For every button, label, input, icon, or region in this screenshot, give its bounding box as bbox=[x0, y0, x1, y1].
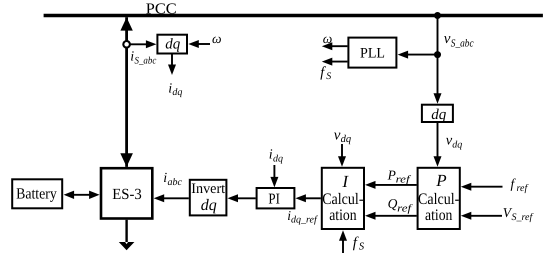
svg-text:ω: ω bbox=[323, 31, 333, 46]
svg-text:ation: ation bbox=[425, 207, 452, 224]
svg-text:abc: abc bbox=[168, 177, 183, 188]
svg-text:v: v bbox=[444, 31, 451, 47]
svg-text:ref: ref bbox=[517, 183, 529, 194]
svg-text:S_abc: S_abc bbox=[451, 37, 474, 49]
svg-text:S_ref: S_ref bbox=[512, 212, 534, 223]
svg-text:dq: dq bbox=[341, 134, 352, 145]
svg-text:ω: ω bbox=[212, 31, 222, 46]
svg-text:P: P bbox=[387, 167, 396, 182]
svg-text:Q: Q bbox=[388, 196, 398, 211]
svg-text:S: S bbox=[359, 241, 365, 252]
svg-text:dq: dq bbox=[201, 197, 217, 214]
svg-text:dq: dq bbox=[452, 139, 462, 150]
svg-text:PCC: PCC bbox=[146, 0, 177, 17]
svg-text:P: P bbox=[435, 171, 446, 190]
svg-text:dq: dq bbox=[431, 107, 447, 123]
svg-text:Calcul-: Calcul- bbox=[418, 191, 459, 208]
svg-text:dq: dq bbox=[172, 87, 182, 98]
svg-text:ES-3: ES-3 bbox=[112, 186, 142, 203]
svg-text:Battery: Battery bbox=[16, 186, 57, 203]
svg-text:Invert: Invert bbox=[191, 181, 225, 197]
svg-text:PLL: PLL bbox=[360, 46, 385, 62]
svg-text:dq_ref: dq_ref bbox=[291, 214, 318, 225]
svg-text:S: S bbox=[326, 71, 331, 82]
svg-text:dq: dq bbox=[165, 36, 181, 52]
svg-text:ation: ation bbox=[329, 207, 356, 224]
svg-text:Calcul-: Calcul- bbox=[322, 191, 363, 208]
svg-text:S_abc: S_abc bbox=[135, 56, 157, 67]
svg-text:PI: PI bbox=[268, 192, 280, 208]
svg-text:dq: dq bbox=[273, 153, 283, 164]
